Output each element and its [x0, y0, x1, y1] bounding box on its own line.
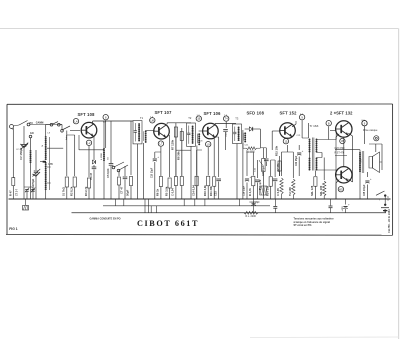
svg-text:T HP: T HP — [361, 158, 363, 163]
svg-text:ST écrat en PO.: ST écrat en PO. — [294, 224, 313, 227]
svg-text:GO: GO — [30, 132, 34, 135]
svg-text:AV 47k: AV 47k — [276, 163, 280, 172]
svg-text:50pF: 50pF — [126, 189, 130, 196]
svg-text:C10 10µF: C10 10µF — [151, 167, 153, 178]
svg-text:R6 1k: R6 1k — [156, 188, 160, 196]
svg-text:C18 10µF: C18 10µF — [244, 185, 246, 196]
svg-text:R.L. 2200: R.L. 2200 — [246, 215, 257, 218]
svg-text:C19 50µF: C19 50µF — [250, 202, 261, 204]
svg-text:Inter: Inter — [65, 135, 68, 140]
svg-text:R2 8,2k: R2 8,2k — [70, 186, 74, 196]
svg-text:CT 2-7: CT 2-7 — [17, 188, 19, 196]
svg-text:CH.750 - 22 R. 2264: CH.750 - 22 R. 2264 — [387, 209, 391, 233]
svg-text:CIBOT 661T: CIBOT 661T — [137, 219, 199, 228]
svg-text:CT 47: CT 47 — [120, 186, 124, 194]
svg-text:SFT 152: SFT 152 — [280, 111, 298, 116]
svg-text:R14 10k: R14 10k — [265, 185, 269, 196]
svg-text:2 ×SFT 132: 2 ×SFT 132 — [330, 111, 353, 116]
svg-text:C 0,04: C 0,04 — [171, 188, 175, 196]
svg-text:SFT 108: SFT 108 — [78, 112, 96, 117]
svg-text:GAMMA CONDUITE EN PO: GAMMA CONDUITE EN PO — [90, 217, 121, 220]
svg-text:Prise casque: Prise casque — [363, 129, 378, 132]
svg-text:L 1050: L 1050 — [101, 152, 103, 160]
svg-text:SFL 180: SFL 180 — [319, 185, 323, 196]
svg-text:B: B — [328, 121, 330, 125]
svg-text:R 4,7k: R 4,7k — [248, 188, 252, 196]
svg-text:Tr 163: Tr 163 — [310, 124, 319, 128]
svg-text:C14 0,04: C14 0,04 — [191, 185, 195, 196]
svg-text:L78: L78 — [49, 163, 54, 166]
svg-text:SFL 128: SFL 128 — [310, 185, 314, 196]
svg-text:R5 3,9k: R5 3,9k — [164, 186, 168, 196]
svg-text:R11 39k: R11 39k — [209, 185, 213, 196]
svg-text:C4 47: C4 47 — [89, 172, 93, 180]
svg-text:C20 10µF: C20 10µF — [263, 165, 265, 176]
svg-text:C 0,05: C 0,05 — [276, 188, 280, 196]
svg-text:SFT 107: SFT 107 — [155, 110, 173, 115]
svg-text:R 47: R 47 — [8, 190, 12, 196]
svg-text:TH 100: TH 100 — [288, 187, 292, 196]
svg-text:Pot 4,7k: Pot 4,7k — [258, 179, 262, 190]
svg-text:SFT 106: SFT 106 — [204, 111, 222, 116]
svg-text:SFD 108: SFD 108 — [247, 111, 265, 116]
svg-text:1B: 1B — [197, 117, 200, 121]
svg-text:R7 120k: R7 120k — [171, 139, 175, 150]
svg-text:FIG 1: FIG 1 — [9, 227, 18, 231]
svg-text:W2: W2 — [339, 187, 343, 191]
svg-text:CV 150pF: CV 150pF — [19, 147, 23, 160]
svg-text:R15 10k: R15 10k — [274, 145, 278, 156]
svg-text:C15: C15 — [213, 191, 217, 196]
svg-text:GAMM: GAMM — [36, 122, 44, 125]
svg-text:+100: +100 — [342, 206, 344, 212]
svg-text:R8 39k: R8 39k — [177, 151, 181, 160]
svg-text:CO: CO — [16, 149, 20, 151]
svg-text:C22 25µF: C22 25µF — [296, 155, 298, 166]
svg-text:R10 3,9k: R10 3,9k — [203, 185, 207, 196]
svg-text:C5 0,04: C5 0,04 — [106, 168, 110, 178]
svg-text:C25 100µF: C25 100µF — [364, 184, 366, 196]
svg-text:51 7kΩ: 51 7kΩ — [62, 186, 66, 196]
svg-text:U8: U8 — [151, 118, 155, 122]
svg-text:R3 2,7k: R3 2,7k — [84, 186, 88, 196]
